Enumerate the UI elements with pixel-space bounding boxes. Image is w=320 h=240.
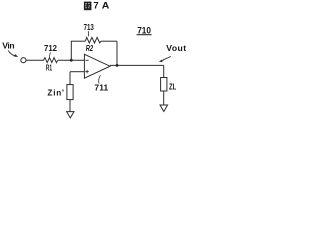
input terminal [21,58,26,63]
wire ZL to ground [163,91,165,105]
wire Vout down to ZL [163,65,165,77]
op-amp U711 [84,54,110,78]
ground (ZL) [160,105,168,112]
wire feedback top left [71,40,86,42]
wire op-amp output [110,64,164,66]
op-amp plus pin mark [85,71,88,73]
leader 711 [99,75,101,83]
svg-text:711: 711 [94,82,108,92]
resistor R2 [85,37,101,43]
op-amp minus pin mark [85,59,88,61]
resistor R1 [44,58,58,63]
svg-text:ZL: ZL [169,82,176,91]
junction output node [116,64,119,67]
svg-text:R1: R1 [46,63,53,72]
wire plus input horizontal [70,71,84,73]
wire Zin' to ground [69,100,71,112]
svg-text:Vout: Vout [166,43,186,53]
junction node [70,59,73,62]
wire feedback top right [101,40,117,42]
wire terminal to R1 [26,59,44,61]
figure title kanji 図 (drawn) [84,2,92,11]
svg-text:713: 713 [84,22,94,32]
svg-text:712: 712 [44,43,57,53]
leader 712 [49,52,50,56]
svg-text:710: 710 [137,25,151,35]
svg-text:A: A [102,0,110,11]
leader 713 [87,31,89,36]
svg-text:Vin: Vin [2,40,14,50]
ground (Zin') [67,112,74,118]
load ZL box [161,78,167,92]
wire R1 to op-amp [58,59,84,61]
wire plus input vertical [69,72,71,85]
Vin leader arrow [8,51,15,56]
Vout leader arrow [162,56,171,61]
impedance Zin' box [67,85,73,100]
svg-text:R2: R2 [86,44,94,53]
wire feedback left vertical [70,41,72,60]
svg-text:Zin': Zin' [47,89,64,98]
svg-text:7: 7 [93,0,98,11]
wire feedback right vertical [116,41,118,65]
